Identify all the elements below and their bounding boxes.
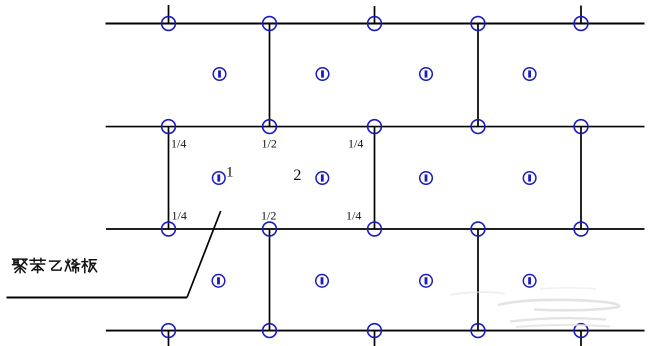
node anchor circle L3-D bbox=[471, 222, 485, 236]
fastener symbol row C2 bbox=[316, 275, 329, 288]
svg-text:1: 1 bbox=[226, 165, 234, 181]
node anchor circle L4-E bbox=[574, 324, 588, 338]
svg-text:1/2: 1/2 bbox=[261, 209, 276, 223]
node anchor circle L1-A bbox=[162, 17, 176, 31]
node anchor circle L1-B bbox=[263, 17, 277, 31]
fastener symbol row C1 bbox=[212, 275, 225, 288]
node anchor circle L3-C bbox=[368, 222, 382, 236]
fastener symbol row A2 bbox=[316, 68, 329, 81]
fastener symbol row C4 bbox=[523, 275, 536, 288]
wire vertical stub below L4 col C bbox=[374, 331, 376, 346]
node anchor circle L3-B bbox=[263, 222, 277, 236]
wire horizontal course line L2 bbox=[106, 126, 645, 128]
wire vertical stub above L1 col E bbox=[580, 6, 582, 24]
node anchor circle L1-E bbox=[574, 17, 588, 31]
svg-text:1/4: 1/4 bbox=[348, 137, 363, 151]
wire vertical joint band1 col D bbox=[477, 24, 479, 127]
node anchor circle L2-A bbox=[162, 120, 176, 134]
node anchor circle L2-B bbox=[263, 120, 277, 134]
wire horizontal course line L1 bbox=[106, 23, 645, 25]
wire vertical joint band3 col B bbox=[269, 229, 271, 331]
wire horizontal course line L3 bbox=[106, 228, 645, 230]
svg-text:1/4: 1/4 bbox=[171, 137, 186, 151]
svg-text:1/4: 1/4 bbox=[172, 209, 187, 223]
node anchor circle L1-D bbox=[471, 17, 485, 31]
fastener symbol row A1 bbox=[213, 68, 226, 81]
wire vertical joint band2 col A bbox=[168, 127, 170, 229]
wire vertical joint band2 col E bbox=[580, 127, 582, 229]
char ben bbox=[30, 258, 45, 273]
node anchor circle L4-B bbox=[263, 324, 277, 338]
wire vertical stub below L4 col A bbox=[168, 331, 170, 346]
node anchor circle L4-C bbox=[368, 324, 382, 338]
wire vertical joint band2 col C bbox=[374, 127, 376, 229]
wire horizontal course line L4 bbox=[106, 330, 645, 332]
node anchor circle L2-C bbox=[368, 120, 382, 134]
node anchor circle L1-C bbox=[368, 17, 382, 31]
node anchor circle L3-E bbox=[574, 222, 588, 236]
node anchor circle L2-D bbox=[471, 120, 485, 134]
callout text polystyrene board (stroke art) bbox=[13, 258, 97, 273]
svg-text:2: 2 bbox=[293, 167, 301, 184]
node anchor circle L3-A bbox=[162, 222, 176, 236]
fastener symbol row C3 bbox=[420, 275, 433, 288]
svg-text:1/4: 1/4 bbox=[346, 209, 361, 223]
leader line horizontal for callout bbox=[7, 297, 188, 299]
char xi bbox=[65, 259, 80, 273]
fastener symbol row B2 bbox=[316, 172, 329, 185]
watermark smudge bottom right bbox=[450, 288, 619, 327]
node anchor circle L4-D bbox=[471, 324, 485, 338]
fastener symbol row A4 bbox=[523, 68, 536, 81]
wire vertical joint band3 col D bbox=[477, 229, 479, 331]
fastener symbol row A3 bbox=[420, 68, 433, 81]
fastener symbol row B3 bbox=[420, 172, 433, 185]
fastener symbol row B4 bbox=[523, 172, 536, 185]
char ju bbox=[13, 259, 28, 273]
leader line diagonal for callout bbox=[187, 211, 221, 298]
node anchor circle L2-E bbox=[574, 120, 588, 134]
node anchor circle L4-A bbox=[162, 324, 176, 338]
fastener symbol row B1 bbox=[213, 172, 226, 185]
wire vertical stub above L1 col C bbox=[374, 6, 376, 24]
char ban bbox=[82, 259, 97, 273]
wire vertical stub below L4 col E bbox=[580, 331, 582, 346]
wire vertical stub above L1 col A bbox=[168, 5, 170, 24]
wire vertical joint band1 col B bbox=[269, 24, 271, 127]
char yi bbox=[49, 261, 61, 270]
svg-text:1/2: 1/2 bbox=[262, 137, 277, 151]
